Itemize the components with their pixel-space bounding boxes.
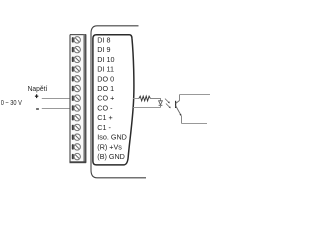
svg-text:DI 11: DI 11 <box>97 65 114 74</box>
svg-text:Iso. GND: Iso. GND <box>97 133 127 142</box>
svg-text:DI 8: DI 8 <box>97 35 110 44</box>
svg-text:Napětí: Napětí <box>28 84 48 93</box>
svg-text:DO 0: DO 0 <box>97 74 114 83</box>
svg-text:C1 -: C1 - <box>97 123 111 132</box>
svg-text:(R) +Vs: (R) +Vs <box>97 142 122 151</box>
svg-text:CO -: CO - <box>97 103 113 112</box>
svg-text:DI 10: DI 10 <box>97 55 114 64</box>
svg-text:DO 1: DO 1 <box>97 84 114 93</box>
svg-text:0 ~ 30 V: 0 ~ 30 V <box>1 98 22 107</box>
svg-text:C1 +: C1 + <box>97 113 112 122</box>
svg-text:(B) GND: (B) GND <box>97 152 125 161</box>
svg-text:CO +: CO + <box>97 94 114 103</box>
svg-text:DI 9: DI 9 <box>97 45 110 54</box>
